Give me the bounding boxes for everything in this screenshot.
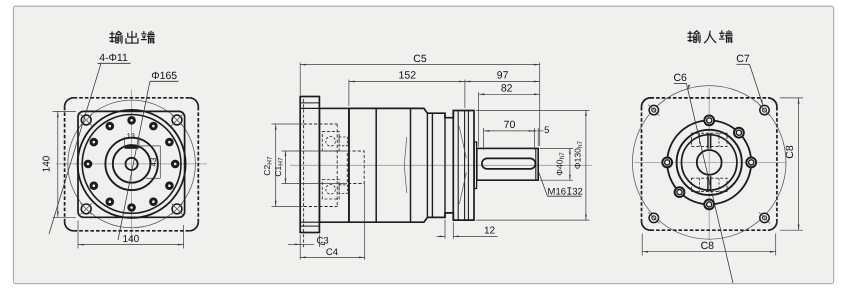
input bore	[697, 150, 722, 175]
svg-text:140: 140	[42, 155, 53, 172]
clamp hub hidden rectangles	[691, 133, 727, 146]
max motor flange circle (thin)	[632, 86, 786, 240]
dim C8 right	[780, 97, 803, 99]
dim 97	[465, 81, 540, 83]
front mounting square 140x140 (rounded)	[78, 111, 185, 217]
svg-text:C3: C3	[317, 236, 329, 247]
svg-text:70: 70	[504, 119, 516, 131]
plate tab inner lines	[300, 102, 319, 104]
body section dividers	[348, 108, 350, 222]
svg-text:5: 5	[544, 125, 549, 136]
output shaft	[477, 148, 538, 180]
svg-text:82: 82	[501, 83, 513, 95]
svg-text:C6: C6	[673, 72, 687, 84]
char shu (transport)	[688, 31, 700, 43]
dim 13 keyway width	[123, 137, 125, 145]
groove edges	[445, 117, 453, 119]
dim 140 vertical (left)	[53, 110, 77, 112]
dim 5	[537, 128, 539, 146]
gearbox body outline	[349, 108, 474, 222]
leader Phi165	[118, 81, 150, 240]
svg-text:M16: M16	[548, 186, 566, 197]
input bolt circle (thick, through holes)	[667, 120, 751, 204]
centerline horizontal (middle view)	[290, 164, 592, 166]
shaft step collar	[474, 142, 476, 189]
dim Phi130h7	[476, 110, 590, 112]
hidden pilot box (dashed)	[304, 123, 338, 125]
svg-text:97: 97	[497, 70, 509, 82]
dim C5 overall	[299, 63, 301, 96]
flange pilot circle	[82, 114, 181, 213]
label C7 with leader	[750, 64, 764, 105]
plate shoulder lines	[300, 107, 319, 109]
svg-text:C8: C8	[701, 240, 715, 252]
svg-text:13: 13	[127, 131, 135, 140]
label C6 with long leader	[687, 84, 734, 283]
svg-text:43: 43	[149, 157, 158, 166]
clamp slot solid lines	[707, 133, 709, 148]
svg-text:4-Φ11: 4-Φ11	[99, 52, 128, 64]
leader 4-Phi11	[49, 63, 101, 234]
dim C3	[299, 235, 301, 260]
dim C4	[364, 184, 366, 260]
svg-text:140: 140	[123, 234, 140, 245]
centerline vertical (left view)	[131, 90, 133, 243]
center bore	[126, 158, 138, 170]
input pilot circles	[677, 130, 742, 195]
svg-text:C5: C5	[413, 53, 427, 65]
shaft end chamfer	[535, 148, 537, 180]
output pilot disc Phi130	[452, 111, 454, 221]
dim 152	[348, 80, 350, 107]
shaft keyway slot	[482, 158, 536, 169]
svg-text:C7: C7	[736, 53, 750, 65]
output flange plate	[300, 97, 319, 233]
centerline vertical (right view)	[708, 88, 710, 240]
svg-text:C4: C4	[326, 247, 338, 258]
char ru (in)	[704, 31, 715, 43]
char duan (end)	[719, 31, 732, 43]
svg-text:Φ165: Φ165	[151, 70, 177, 82]
hidden input bore (dashed)	[347, 151, 364, 184]
12 bolt holes on pitch circle	[172, 161, 178, 167]
svg-text:152: 152	[399, 70, 417, 82]
disc face slashes	[459, 127, 466, 159]
svg-text:32: 32	[572, 186, 583, 197]
4 corner holes (input square)	[649, 105, 658, 114]
dim 43 (vertical, keyway to bore)	[140, 145, 161, 147]
hidden hole line in plate	[303, 99, 305, 247]
dim C8 bottom	[641, 234, 643, 256]
svg-text:12: 12	[484, 226, 496, 237]
flange hub section	[319, 108, 349, 222]
dim C2 H7	[272, 123, 304, 125]
dim 12	[444, 220, 446, 239]
dim Phi40h7	[540, 147, 573, 149]
pitch circle Phi165 (thin, through corner bolt holes)	[68, 100, 196, 228]
taper chevron mark	[404, 137, 407, 165]
dim 140 horizontal (bottom)	[77, 221, 79, 249]
hidden tapped hole (lower)	[322, 180, 339, 200]
centerline horizontal (right view)	[634, 161, 786, 163]
dim 82	[478, 92, 480, 147]
6 input bolt holes	[704, 116, 714, 126]
center hub circles	[105, 138, 157, 190]
keyway at top of bore hub	[125, 145, 139, 149]
input square flange (hidden mid edges)	[642, 98, 777, 230]
dim 70	[483, 128, 485, 150]
svg-text:C8: C8	[784, 145, 796, 159]
char shu (transport)	[110, 31, 122, 43]
centerline horizontal (left view)	[56, 163, 207, 165]
outer square (rear flange, hidden edges) left view	[65, 98, 199, 231]
char duan (end)	[141, 31, 154, 43]
body circle (large, thick)	[78, 110, 186, 218]
4 corner holes 4-Phi11	[81, 115, 91, 125]
dim C1 H7	[282, 150, 348, 152]
label M16 depth 32	[539, 173, 548, 197]
hidden tapped hole (upper)	[322, 132, 339, 152]
char chu (out)	[126, 31, 138, 43]
